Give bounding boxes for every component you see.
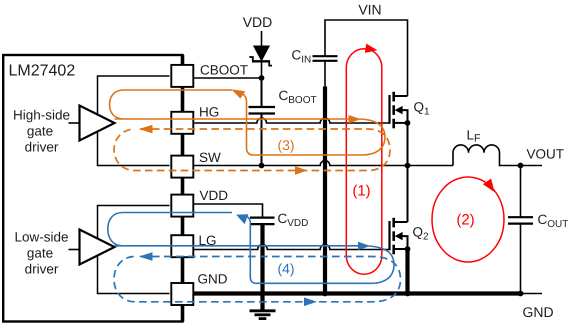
loop 4 low-side gate drive loop solid (blue) bbox=[108, 213, 361, 246]
svg-text:driver: driver bbox=[25, 140, 59, 155]
high-side gate driver U1a triangle bbox=[80, 106, 115, 141]
svg-text:gate: gate bbox=[27, 246, 53, 261]
junction Q1 source bbox=[405, 120, 411, 126]
capacitor CVDD bbox=[250, 218, 275, 225]
junction COUT / GND bus bbox=[518, 291, 524, 297]
wire CBOOT pin to diode node bbox=[194, 77, 262, 79]
loop 4 arrow right (on LG path) bbox=[358, 242, 371, 250]
svg-text:VIN: VIN bbox=[358, 2, 381, 18]
capacitor CBOOT bbox=[249, 107, 276, 114]
junction SW node bbox=[405, 163, 411, 169]
pin LG bbox=[171, 235, 193, 257]
svg-text:GND: GND bbox=[198, 272, 228, 287]
capacitor COUT bbox=[508, 217, 533, 223]
IC right edge pin rail bbox=[181, 55, 185, 322]
wire SW pin to inductor (hop over CIN leg) bbox=[194, 161, 454, 166]
high-side driver block outline bbox=[98, 76, 170, 166]
CIN ground lead (thick) bbox=[323, 87, 327, 294]
loop 3 high-side gate drive loop solid (orange) bbox=[110, 90, 353, 119]
wire COUT to GND bus bbox=[520, 224, 522, 294]
GND net stub right bbox=[521, 293, 543, 295]
svg-text:(3): (3) bbox=[277, 137, 294, 153]
loop 3 arrow right (on HG path) bbox=[349, 115, 362, 123]
wire HG pin to Q1 gate (hops over CBOOT and CIN legs) bbox=[194, 118, 390, 123]
svg-text:gate: gate bbox=[27, 124, 53, 139]
transistor Q1 bbox=[390, 92, 408, 129]
wire Q2 drain to SW node bbox=[407, 166, 409, 223]
wire Q1 source to SW node bbox=[407, 123, 409, 166]
wire Q2 source to GND bus (thick) bbox=[405, 249, 409, 294]
loop 2 output ripple loop (red) bbox=[432, 177, 504, 262]
svg-text:SW: SW bbox=[199, 150, 221, 165]
wire VDD label to diode anode bbox=[261, 31, 263, 47]
svg-text:VOUT: VOUT bbox=[527, 147, 565, 162]
VIN rail wire bbox=[325, 20, 408, 96]
junction CBOOT node bbox=[259, 75, 265, 81]
low-side driver input stub bbox=[69, 249, 80, 251]
svg-text:GND: GND bbox=[523, 304, 554, 320]
loop 3 arrow up-left (at CBOOT return) bbox=[231, 89, 245, 98]
pin CBOOT bbox=[171, 65, 193, 87]
wire LG pin to Q2 gate (hops over CVDD and CIN legs) bbox=[194, 245, 390, 250]
pin SW bbox=[171, 156, 193, 178]
svg-text:(2): (2) bbox=[456, 212, 474, 229]
junction Q2 source / GND bus bbox=[405, 291, 411, 297]
junction CBOOT cap / SW bbox=[259, 163, 265, 169]
pin HG bbox=[171, 112, 193, 134]
loop 2 arrow bbox=[483, 179, 495, 193]
capacitor CIN bbox=[313, 56, 338, 61]
wire CBOOT node to CBOOT cap bbox=[261, 78, 263, 107]
svg-text:LM27402: LM27402 bbox=[9, 63, 76, 80]
junction CIN / GND bus bbox=[322, 291, 328, 297]
low-side driver block outline bbox=[98, 206, 170, 294]
pin GND bbox=[171, 283, 193, 305]
CVDD ground lead (thick) bbox=[260, 224, 264, 309]
loop 4 dashed discharge path (blue) bbox=[114, 257, 401, 302]
loop 4 dashed arrow left bbox=[139, 252, 153, 261]
inductor LF bbox=[453, 145, 521, 166]
svg-text:High-side: High-side bbox=[13, 108, 70, 123]
svg-text:(4): (4) bbox=[277, 261, 294, 277]
low-side gate driver U1b triangle bbox=[80, 230, 115, 265]
svg-text:driver: driver bbox=[25, 262, 59, 277]
junction VOUT node bbox=[518, 163, 524, 169]
high-side driver input stub bbox=[69, 122, 80, 124]
ground bus GND pin to COUT (thick) bbox=[194, 291, 521, 295]
junction Q2 source bbox=[405, 246, 411, 252]
transistor Q2 bbox=[390, 218, 408, 255]
loop 1 arrow bbox=[365, 44, 378, 53]
ground symbol bbox=[250, 311, 276, 319]
IC outline LM27402 bbox=[3, 55, 182, 322]
svg-text:VDD: VDD bbox=[200, 188, 229, 203]
svg-text:HG: HG bbox=[199, 105, 219, 120]
loop 3 dashed arrow left bbox=[139, 125, 153, 134]
VOUT stub wire bbox=[521, 165, 543, 167]
wire VOUT to COUT bbox=[520, 166, 522, 218]
loop 4 dashed arrow right bbox=[304, 298, 317, 307]
svg-text:VDD: VDD bbox=[243, 14, 273, 30]
CIN ground lead (thin) bbox=[324, 61, 326, 87]
wire VDD pin to CVDD bbox=[194, 204, 263, 218]
schottky diode D1 bbox=[249, 46, 272, 66]
wire diode cathode to CBOOT node bbox=[261, 63, 263, 79]
loop 4 arrow up-left (at CVDD return) bbox=[236, 214, 248, 224]
svg-text:(1): (1) bbox=[352, 183, 370, 200]
pin VDD bbox=[171, 195, 193, 217]
loop 3 dashed discharge path (orange) bbox=[114, 129, 390, 171]
loop 1 input current loop (red) bbox=[346, 49, 382, 275]
svg-text:Low-side: Low-side bbox=[14, 230, 68, 245]
svg-text:CBOOT: CBOOT bbox=[200, 63, 248, 78]
wire CBOOT cap to SW node bbox=[261, 114, 263, 166]
loop 3 dashed arrow right bbox=[295, 166, 308, 175]
